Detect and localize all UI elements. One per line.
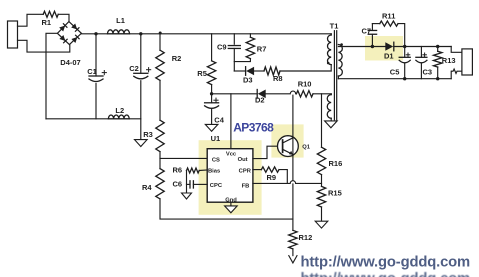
resistor R11 (380, 21, 398, 26)
svg-text:R15: R15 (328, 189, 342, 198)
wire output top lead (451, 47, 462, 53)
resistor R3 (156, 120, 164, 151)
svg-text:R1: R1 (42, 18, 52, 27)
capacitor C9 (228, 46, 240, 49)
svg-text:R4: R4 (142, 183, 152, 192)
label C5 (390, 53, 410, 77)
diode D1 (385, 42, 394, 51)
wire plug bottom to bridge bottom (18, 40, 70, 52)
wire Out pin to Q1 base (253, 146, 283, 158)
wire secondary top to D1 (338, 46, 385, 48)
node C2 top (139, 32, 142, 35)
highlight box around Q1 (271, 124, 303, 157)
label C4 (214, 98, 225, 125)
transistor Q1 body (278, 136, 299, 157)
node R2 top (159, 32, 162, 35)
svg-text:CS: CS (212, 158, 220, 164)
inductor L1 (108, 30, 130, 34)
label R2 (172, 54, 182, 63)
label R10 (298, 79, 312, 88)
svg-text:R12: R12 (299, 233, 313, 242)
resistor R16 (317, 147, 325, 174)
ground below U1 (225, 206, 238, 213)
output connector J2 (462, 49, 473, 75)
label D2 (255, 95, 265, 104)
wire R16 to R15 (321, 175, 323, 187)
AC input plug J1 (8, 21, 18, 48)
svg-text:C7: C7 (362, 27, 372, 36)
Q1 collector (283, 95, 293, 154)
svg-text:CPC: CPC (210, 183, 223, 189)
hop junction emitter (290, 181, 295, 184)
resistor R7 (246, 37, 254, 58)
svg-text:C9: C9 (217, 43, 227, 52)
wire C1 vertical (95, 34, 97, 119)
wire rail to R2 (159, 34, 161, 50)
wire rail to R5 (211, 34, 213, 61)
svg-text:R16: R16 (329, 159, 343, 168)
pin label FB (242, 183, 250, 189)
wire C4 vertical (211, 94, 213, 125)
T1 secondary phase dot (340, 43, 343, 46)
pin label CS (212, 158, 220, 164)
label C6 (173, 180, 183, 189)
wire R13 vertical (437, 47, 439, 79)
capacitor C1 (89, 76, 103, 82)
label U1 (211, 134, 221, 143)
wire R7 bottom to clamp node (234, 59, 250, 62)
svg-text:R13: R13 (442, 56, 456, 65)
svg-text:R5: R5 (197, 69, 207, 78)
wire C7 vertical (371, 24, 373, 47)
wire R6 to Bias pin (199, 169, 207, 172)
svg-text:http://www.go-gddq.com: http://www.go-gddq.com (301, 271, 471, 277)
bridge diode bottom-right (71, 35, 79, 43)
wire CS node to U1 (160, 157, 207, 159)
resistor R10 (296, 91, 313, 97)
wire R2 to R3 (159, 80, 161, 120)
wire R10 to aux winding (313, 93, 331, 95)
label R11 (382, 11, 395, 20)
resistor R5 (207, 61, 215, 85)
svg-text:D4-07: D4-07 (60, 58, 80, 67)
wire CPR to R9 (253, 169, 262, 171)
capacitor C4 (205, 103, 219, 109)
T1 secondary winding (338, 45, 342, 79)
resistor R1 (43, 11, 58, 17)
wire emitter down (292, 155, 294, 231)
ground below aux winding (325, 121, 338, 128)
wire R8 to T1 primary (280, 65, 331, 71)
T1 aux winding (327, 94, 331, 119)
label D3 (243, 76, 253, 85)
wire C9 to D3 node (233, 49, 235, 72)
T1 primary winding (328, 34, 332, 65)
wire FB to divider (296, 182, 322, 184)
label R7 (257, 44, 267, 53)
bridge diode top-left (59, 24, 67, 32)
label Q1 (302, 144, 311, 150)
svg-text:L1: L1 (116, 16, 125, 25)
wire D2 to hop (266, 93, 290, 95)
wire Vcc drop to U1 (230, 94, 232, 149)
wire bottom rail (46, 118, 141, 120)
wire aux to ground (330, 118, 332, 121)
label C1 (87, 67, 106, 76)
resistor R9 (261, 167, 279, 172)
label R9 (267, 173, 277, 182)
watermark URL (301, 255, 471, 271)
pin label Out (238, 157, 248, 163)
diode D2 (257, 90, 266, 99)
wire R1 to bridge top (58, 14, 69, 21)
svg-text:R8: R8 (273, 74, 283, 83)
wire C3 vertical (420, 47, 422, 79)
resistor R12 (289, 230, 297, 249)
svg-text:L2: L2 (115, 106, 124, 115)
wire Vcc node to D2 (212, 93, 258, 95)
op-amp U1 body (207, 149, 253, 203)
wire R15 to ground (321, 207, 323, 221)
label R15 (328, 189, 342, 198)
pin label Vcc (226, 151, 237, 157)
Q1 emitter (283, 149, 293, 155)
ground arrow below R12 (289, 256, 297, 263)
label D4-07 (60, 58, 80, 67)
label R8 (273, 74, 283, 83)
resistor R6 (187, 168, 200, 173)
svg-text:C4: C4 (214, 116, 224, 125)
ground below C4 (205, 124, 218, 131)
svg-text:R2: R2 (172, 54, 182, 63)
node R13 top (436, 45, 439, 48)
svg-text:R7: R7 (257, 44, 267, 53)
svg-text:D3: D3 (243, 76, 253, 85)
diode D3 (246, 67, 255, 76)
capacitor C6 (190, 181, 193, 188)
svg-text:C3: C3 (423, 68, 433, 77)
bridge diode bottom-left (59, 35, 67, 43)
wire C6 left lead (187, 183, 191, 185)
svg-text:U1: U1 (211, 134, 221, 143)
wire hop to R10 (295, 93, 298, 95)
label L1 (116, 16, 125, 25)
wire rail to R7 (249, 34, 251, 37)
node snubber left (371, 45, 374, 48)
svg-text:R9: R9 (267, 173, 277, 182)
label C9 (217, 43, 227, 52)
label R6 (173, 166, 183, 175)
svg-text:C5: C5 (390, 68, 400, 77)
T1 core (334, 31, 336, 120)
wire D3 to R8 (254, 70, 264, 72)
node C5 bottom (403, 77, 406, 80)
svg-text:FB: FB (242, 183, 250, 189)
label R16 (329, 159, 343, 168)
svg-text:D2: D2 (255, 95, 265, 104)
label R3 (143, 130, 153, 139)
svg-text:Bias: Bias (208, 168, 220, 174)
bridge rectifier D4-D7 outline (57, 22, 81, 45)
wire R6 left leg (186, 171, 188, 194)
svg-text:R3: R3 (143, 130, 153, 139)
wire output bottom lead (451, 69, 462, 79)
label R1 (42, 18, 52, 27)
label C2 (129, 64, 150, 73)
svg-text:CPR: CPR (239, 168, 252, 174)
svg-text:C2: C2 (129, 64, 139, 73)
wire R3 to R4 node (159, 152, 161, 169)
wire U1 gnd pin (230, 202, 232, 206)
svg-text:http://www.go-gddq.com: http://www.go-gddq.com (301, 255, 471, 271)
capacitor C2 (134, 73, 148, 79)
label T1 (330, 22, 339, 31)
capacitor C7 (368, 30, 376, 34)
wire R9 right leg (279, 170, 287, 184)
highlight box around D1 (365, 36, 403, 61)
svg-text:R6: R6 (173, 166, 183, 175)
wire bridge left vertex to left rail (46, 33, 57, 119)
label R13 (442, 56, 456, 65)
node Vcc supply (210, 92, 213, 95)
node D1 cathode (403, 45, 406, 48)
ground below R15 (315, 221, 328, 228)
wire top rail (81, 33, 331, 35)
svg-text:AP3768: AP3768 (233, 121, 274, 135)
wire C7 to R11 (372, 23, 379, 25)
pin label Bias (208, 168, 220, 174)
bridge diode top-right (71, 24, 79, 32)
inductor L2 (108, 115, 129, 119)
capacitor C5 (399, 57, 410, 63)
svg-text:T1: T1 (330, 22, 339, 31)
label AP3768 (233, 121, 274, 135)
svg-text:Q1: Q1 (302, 144, 311, 150)
svg-text:R10: R10 (298, 79, 312, 88)
resistor R4 (156, 169, 164, 199)
resistor R8 (264, 67, 280, 75)
wire R12 to arrow (292, 249, 294, 256)
T1 primary phase dot (327, 62, 330, 65)
Q1 base bar (282, 140, 284, 152)
wire FB line (253, 182, 290, 184)
label C3 (423, 53, 433, 77)
svg-text:R11: R11 (382, 11, 395, 20)
wire C6 to CPC pin (193, 183, 207, 185)
wire aux node to R16 (321, 94, 323, 147)
wire C5 vertical (404, 47, 406, 79)
svg-text:C6: C6 (173, 180, 183, 189)
ground below C6 (182, 193, 192, 199)
node R13 bottom (436, 77, 439, 80)
svg-text:D1: D1 (384, 52, 394, 61)
pin label CPR (239, 168, 252, 174)
wire secondary bottom rail (338, 78, 451, 80)
wire plug top to R1 (18, 14, 44, 26)
pin label CPC (210, 183, 223, 189)
wire R11 down to D1 cathode (398, 24, 405, 47)
capacitor C3 (416, 57, 427, 63)
wire rail to C9 (233, 34, 235, 44)
label R12 (299, 233, 313, 242)
watermark URL clipped second line (301, 271, 471, 277)
hop junction collector (290, 91, 295, 94)
svg-text:Vcc: Vcc (226, 151, 237, 157)
wire D1 to output (394, 46, 451, 48)
label L2 (115, 106, 124, 115)
svg-text:C1: C1 (87, 67, 97, 76)
resistor R13 (434, 51, 442, 67)
svg-text:Out: Out (238, 157, 248, 163)
resistor R2 (156, 50, 164, 80)
highlight box around U1 (199, 140, 262, 215)
resistor R15 (317, 186, 325, 207)
label D1 (384, 52, 394, 61)
node C1 top (94, 32, 97, 35)
pin label Gnd (225, 197, 237, 203)
label C7 (362, 27, 372, 36)
wire R5 to Vcc node (211, 85, 213, 94)
label R5 (197, 69, 207, 78)
wire clamp node to D3 (234, 70, 245, 72)
label R4 (142, 183, 152, 192)
wire R4 bottom to R12 top (160, 199, 293, 219)
wire C2 vertical (140, 34, 142, 140)
ground below C2 (135, 140, 148, 147)
